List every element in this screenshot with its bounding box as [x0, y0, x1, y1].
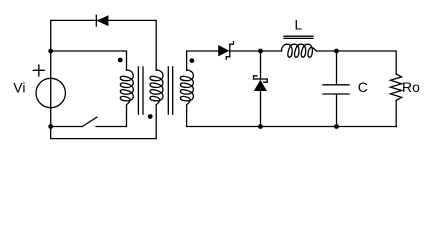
- switch S1 blade: [82, 117, 97, 126]
- reset winding polarity dot: [148, 114, 153, 119]
- wire secondary top to diode D1: [187, 51, 218, 70]
- wire inductor to cap node: [316, 50, 336, 52]
- wire bottom rail primary side: [51, 105, 157, 139]
- diode D3 reset diode (points left): [96, 15, 108, 26]
- svg-text:L: L: [295, 17, 303, 33]
- svg-text:Vi: Vi: [13, 79, 25, 95]
- wire freewheel branch lower: [260, 91, 262, 127]
- svg-text:Ro: Ro: [402, 79, 420, 95]
- wire freewheel branch upper: [260, 51, 262, 79]
- wire from node A to primary top: [51, 51, 127, 70]
- wire cap node to load corner: [337, 51, 397, 74]
- capacitor C: [323, 51, 349, 127]
- node C junction dot (freewheel top): [258, 49, 263, 54]
- node E junction dot (freewheel bottom): [258, 124, 263, 129]
- source Vi circle: [36, 78, 65, 107]
- diode D1 schottky (points right): [218, 42, 233, 60]
- primary polarity dot: [118, 58, 123, 63]
- plus sign of Vi: [33, 65, 44, 76]
- wire top rail from node A up and right to reset winding: [51, 20, 157, 70]
- wire D1 to inductor: [230, 50, 282, 52]
- transformer core lines: [138, 67, 172, 114]
- wire from switch to primary bottom: [96, 105, 127, 127]
- node F junction dot (cap bottom): [334, 124, 339, 129]
- resistor Ro zigzag: [390, 74, 401, 127]
- secondary polarity dot: [190, 58, 195, 63]
- wire from node B to switch: [51, 126, 83, 128]
- diode D2 schottky freewheeling (points up): [254, 76, 268, 91]
- node D junction dot (cap top): [334, 49, 339, 54]
- transformer T1 reset winding (middle): [150, 70, 163, 105]
- inductor L core lines: [284, 35, 313, 37]
- node A junction dot: [48, 49, 53, 54]
- node B junction dot (bottom of source): [48, 124, 53, 129]
- svg-text:C: C: [358, 79, 368, 95]
- transformer T1 primary winding: [120, 70, 133, 105]
- transformer T1 secondary winding: [180, 70, 193, 105]
- inductor L coil: [282, 44, 317, 57]
- wire through source Vi: [50, 51, 52, 127]
- wire secondary bottom rail: [187, 105, 397, 127]
